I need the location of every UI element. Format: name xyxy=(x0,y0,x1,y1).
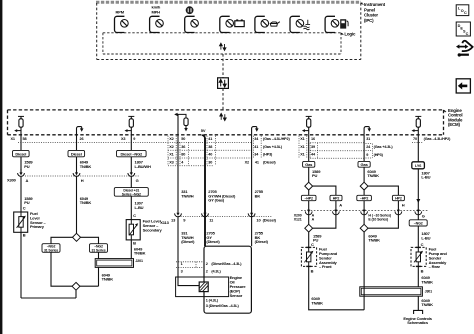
wire secondary B to splice pack xyxy=(130,240,132,259)
Diesel -NG2 tag xyxy=(117,150,147,156)
svg-text:(Gas +4.3L): (Gas +4.3L) xyxy=(374,145,394,149)
svg-text:(Diesel): (Diesel) xyxy=(181,239,195,244)
svg-text:X3: X3 xyxy=(169,160,173,164)
wire 1807 LY6 column xyxy=(417,135,419,162)
svg-text:Logic: Logic xyxy=(344,32,356,37)
serial data arrows above logic bottom xyxy=(220,43,226,50)
fuel level sensor secondary xyxy=(126,220,140,240)
-HP2 tag 2 xyxy=(357,195,372,200)
svg-text:31 Series: 31 Series xyxy=(91,248,105,252)
svg-text:41: 41 xyxy=(208,137,212,141)
svg-text:HP2: HP2 xyxy=(333,197,340,201)
X200 terminals col B xyxy=(361,211,368,214)
svg-text:Schematics: Schematics xyxy=(407,320,429,325)
HP2 wire jog to diamond xyxy=(313,201,336,229)
-HP2 tag xyxy=(301,195,316,200)
IPC name label xyxy=(361,3,364,5)
EOP inner element box xyxy=(176,277,229,297)
gauge speed km/h MPH xyxy=(150,4,164,32)
svg-text:HP2: HP2 xyxy=(395,197,402,201)
svg-text:X3: X3 xyxy=(121,137,125,141)
svg-text:(4.3L): (4.3L) xyxy=(211,270,221,274)
svg-text:TN/BK: TN/BK xyxy=(80,164,92,169)
svg-text:C: C xyxy=(311,242,314,247)
-NG2 31 Series tag left xyxy=(42,244,60,253)
ECM connector pin labels row 3 xyxy=(169,153,383,157)
DESC box xyxy=(456,22,470,36)
svg-text:Diesel –NG2: Diesel –NG2 xyxy=(121,151,144,156)
svg-text:–NG2: –NG2 xyxy=(414,222,423,226)
svg-text:(IPC): (IPC) xyxy=(364,18,374,23)
svg-text:Gas: Gas xyxy=(361,162,369,167)
svg-text:36: 36 xyxy=(181,145,185,149)
wire 1307 to secondary sensor xyxy=(130,196,132,219)
wire to Diesel +31 Series tag xyxy=(130,177,132,188)
svg-text:58: 58 xyxy=(23,137,27,141)
svg-text:TN/BK: TN/BK xyxy=(134,251,146,256)
X200 terminal col C xyxy=(415,211,422,214)
EOP internal wire xyxy=(178,277,199,286)
wire 6049 to splice diamond xyxy=(76,177,78,234)
svg-text:L-BU: L-BU xyxy=(135,205,144,210)
Logic label xyxy=(341,33,343,35)
svg-text:(Gas –4.3L/HP2): (Gas –4.3L/HP2) xyxy=(424,137,452,141)
right NG2 box into splice pack J201 xyxy=(98,252,100,258)
svg-text:A: A xyxy=(339,202,342,207)
splice diamond gas2 xyxy=(360,182,368,190)
svg-text:A: A xyxy=(26,178,29,183)
5V reference bus xyxy=(204,138,206,246)
svg-text:Primary: Primary xyxy=(30,224,45,229)
svg-text:PU: PU xyxy=(24,164,30,169)
svg-text:X1: X1 xyxy=(300,153,304,157)
serial data wire (dashed) upper xyxy=(222,54,224,78)
HP2 tag xyxy=(330,195,342,200)
svg-text:L-BU/WH: L-BU/WH xyxy=(135,164,151,169)
svg-text:Gas: Gas xyxy=(305,162,313,167)
gauge RPM xyxy=(115,10,129,33)
svg-text:Diesel: Diesel xyxy=(71,151,82,156)
svg-text:X2: X2 xyxy=(169,137,173,141)
svg-text:H: H xyxy=(402,202,405,207)
svg-text:MPH: MPH xyxy=(152,10,161,15)
svg-text:30: 30 xyxy=(208,160,212,164)
LOC box xyxy=(456,5,469,16)
svg-text:J301: J301 xyxy=(425,290,433,294)
EOP name xyxy=(230,275,247,298)
svg-text:(Diesel): (Diesel) xyxy=(263,160,276,164)
X113 terminal 5V bus xyxy=(202,213,209,216)
ECM pin driver P7 (16/39/44) xyxy=(302,116,312,134)
svg-text:G: G xyxy=(136,178,139,183)
ECM pin hook P2 (26) xyxy=(77,127,84,135)
Gas tag W7 xyxy=(303,161,315,167)
ECM pin hook P8 xyxy=(364,127,371,135)
engine oil pressure EOP sensor body xyxy=(204,246,251,313)
-HP2 wire through X200 xyxy=(308,201,310,225)
EOP transducer square xyxy=(199,282,208,292)
wire 331 into EOP xyxy=(177,217,179,277)
left NG2 box to ground diamond xyxy=(51,252,73,286)
X300 terminal W3 xyxy=(128,173,135,176)
svg-text:X1: X1 xyxy=(169,153,173,157)
svg-text:TN/BK: TN/BK xyxy=(80,200,92,205)
svg-text:41: 41 xyxy=(254,145,258,149)
svg-text:TN/BK: TN/BK xyxy=(102,277,114,282)
ECM pin driver P1 (X1 58) xyxy=(14,116,24,134)
wire 2755 BK xyxy=(251,135,253,246)
splice pack J301 xyxy=(360,287,423,296)
splice diamond D2 (ground) xyxy=(72,282,80,290)
instrument panel cluster IPC outer box xyxy=(96,2,361,59)
ECM connector pin labels row 4 xyxy=(169,160,276,164)
fuel level sensor primary xyxy=(14,212,28,232)
svg-text:Sensor: Sensor xyxy=(230,293,243,298)
X113 inline connector row xyxy=(176,215,272,217)
svg-text:X121: X121 xyxy=(294,218,302,222)
svg-text:3: 3 xyxy=(181,270,183,274)
Diesel +31 Series -NG2 tag xyxy=(114,188,148,197)
svg-text:(ECM): (ECM) xyxy=(448,122,461,127)
label 1589 PU xyxy=(24,160,33,169)
ECM internal supply P4 with fuse xyxy=(174,113,188,135)
svg-text:Series –NG2: Series –NG2 xyxy=(122,192,141,196)
svg-text:C: C xyxy=(464,11,467,15)
svg-text:– Rear: – Rear xyxy=(429,264,441,269)
svg-text:B: B xyxy=(311,268,314,273)
wire through splice to ground run xyxy=(363,287,365,310)
serial data connector box xyxy=(218,78,229,89)
svg-text:RPM: RPM xyxy=(116,10,125,15)
svg-text:L-BU: L-BU xyxy=(421,175,430,180)
gauge coolant temp xyxy=(290,16,310,32)
svg-text:80: 80 xyxy=(181,153,185,157)
svg-text:TN/BK: TN/BK xyxy=(421,279,433,284)
fuel pump and sender assembly rear xyxy=(411,247,426,266)
svg-text:16: 16 xyxy=(311,137,315,141)
EOP bottom pin labels xyxy=(206,299,240,309)
wire 6049 gas column xyxy=(363,135,365,162)
svg-text:B: B xyxy=(421,268,424,273)
connector variant dotted separators xyxy=(18,136,423,166)
Diesel tag W2 xyxy=(68,150,85,156)
svg-text:PU: PU xyxy=(313,238,319,243)
svg-text:TN/BK: TN/BK xyxy=(311,300,323,305)
off-page connector to engine controls xyxy=(414,310,423,314)
wire 6049 upper segment xyxy=(76,135,78,174)
svg-text:Secondary: Secondary xyxy=(143,227,163,232)
svg-text:39: 39 xyxy=(311,145,315,149)
svg-text:B: B xyxy=(133,240,136,245)
svg-text:L-BU: L-BU xyxy=(421,235,430,240)
wire 1807 upper segment xyxy=(130,135,132,174)
svg-text:H: H xyxy=(81,178,84,183)
svg-text:G: G xyxy=(422,213,425,218)
svg-text:31: 31 xyxy=(366,137,370,141)
svg-text:(Diesel): (Diesel) xyxy=(206,239,220,244)
svg-text:9: 9 xyxy=(133,137,135,141)
svg-text:26: 26 xyxy=(80,137,84,141)
wire 1589 PU upper segment xyxy=(20,135,22,174)
svg-text:(HP3): (HP3) xyxy=(374,153,384,157)
svg-text:1: 1 xyxy=(181,262,183,266)
6049 below J301 xyxy=(417,296,419,310)
Diesel tag W1 xyxy=(13,150,30,156)
svg-text:70: 70 xyxy=(413,137,417,141)
svg-text:GY (Gas): GY (Gas) xyxy=(208,198,225,203)
direction arrow on wire xyxy=(416,199,420,203)
EOP pin rows xyxy=(176,262,203,268)
X300 inline connector row xyxy=(25,175,140,177)
svg-text:(Diesel): (Diesel) xyxy=(263,217,277,222)
wire from primary B down xyxy=(20,232,22,298)
svg-text:2: 2 xyxy=(206,262,208,266)
svg-text:(Gas +4.3L): (Gas +4.3L) xyxy=(263,145,283,149)
svg-text:38: 38 xyxy=(208,145,212,149)
svg-text:J201: J201 xyxy=(135,259,143,263)
branch to -NG2 31 Series left xyxy=(51,237,73,243)
svg-text:TN/BK: TN/BK xyxy=(368,238,380,243)
X113 terminal 2755 xyxy=(248,213,255,216)
wire 331 TN/WH xyxy=(177,135,179,214)
wire 1589 PU to sensor xyxy=(20,177,22,212)
-NG2 tag right xyxy=(409,220,427,226)
svg-text:–HP2: –HP2 xyxy=(360,197,369,201)
Gas tag W8 xyxy=(358,161,370,167)
serial data wire (dashed) lower xyxy=(222,88,224,110)
svg-text:40: 40 xyxy=(208,153,212,157)
gauge battery xyxy=(220,16,244,32)
svg-text:1 (4.3L): 1 (4.3L) xyxy=(206,299,219,303)
svg-text:(Gas –4.3L/HP2): (Gas –4.3L/HP2) xyxy=(263,137,291,141)
svg-text:9: 9 xyxy=(366,153,368,157)
wire 1589 PU gas column xyxy=(308,135,310,162)
front assembly B to ground run xyxy=(309,266,364,309)
gauge fuel xyxy=(325,16,348,32)
svg-text:X113: X113 xyxy=(160,220,169,225)
svg-text:PU: PU xyxy=(312,173,318,178)
svg-text:(HP3): (HP3) xyxy=(263,153,273,157)
svg-text:LY6: LY6 xyxy=(415,164,421,168)
branch to -NG2 31 Series right xyxy=(81,237,99,243)
svg-text:(Diesel): (Diesel) xyxy=(255,239,269,244)
X300 terminal W2 xyxy=(73,173,80,176)
splice diamond gas1 lower xyxy=(305,224,313,232)
svg-text:X2: X2 xyxy=(169,145,173,149)
svg-text:Diesel: Diesel xyxy=(15,151,26,156)
svg-text:BK: BK xyxy=(255,193,261,198)
svg-text:2: 2 xyxy=(206,270,208,274)
gauge oil xyxy=(255,16,280,32)
splice diamond gas2 lower xyxy=(360,224,368,232)
splice diamond gas1 xyxy=(305,182,313,190)
svg-text:C: C xyxy=(133,213,136,218)
svg-text:– Front: – Front xyxy=(319,264,332,269)
svg-text:TN/BK: TN/BK xyxy=(367,173,379,178)
logic box (inner dashed) xyxy=(103,33,341,54)
serial data arrows inside ECM xyxy=(220,113,226,120)
svg-text:X300: X300 xyxy=(7,177,17,182)
ECM pin driver P9 (70) xyxy=(412,116,422,134)
gauge coolant temp warning icon xyxy=(185,6,199,32)
X200 X121 connector row (right) xyxy=(301,210,428,212)
svg-text:C: C xyxy=(466,32,469,36)
svg-text:5V: 5V xyxy=(201,128,206,133)
page edge bar xyxy=(0,0,2,334)
branch to HP2 right xyxy=(313,186,336,195)
engine control module ECM box xyxy=(8,110,444,135)
svg-text:X1: X1 xyxy=(300,145,304,149)
splice diamond D1 xyxy=(73,233,81,241)
jump arrows icon xyxy=(456,41,473,57)
splice pack J201 xyxy=(95,259,133,268)
LY6 tag xyxy=(412,162,425,169)
labels below X113 xyxy=(181,231,268,244)
ECM connector pin labels row 2 xyxy=(169,145,393,149)
svg-text:TN/WH: TN/WH xyxy=(181,193,194,198)
svg-text:X1: X1 xyxy=(300,137,304,141)
svg-text:C: C xyxy=(23,206,26,211)
svg-text:E (10 Series): E (10 Series) xyxy=(368,218,389,222)
svg-text:TN/BK: TN/BK xyxy=(421,302,433,307)
svg-text:PU: PU xyxy=(24,200,30,205)
back arrow box xyxy=(456,79,470,93)
-NG2 31 Series tag right xyxy=(90,244,108,253)
svg-text:(Diesel/Gas –4.3L): (Diesel/Gas –4.3L) xyxy=(211,262,242,266)
fuel pump and sender assembly front xyxy=(301,247,316,266)
X300 terminal W1 xyxy=(18,173,25,176)
ECM connector pin labels row 1 xyxy=(11,137,452,141)
ECM pin driver P3 (X3 9) xyxy=(125,116,135,134)
svg-text:C: C xyxy=(421,242,424,247)
svg-text:X2: X2 xyxy=(245,160,249,164)
svg-text:–HP2: –HP2 xyxy=(304,197,313,201)
svg-text:41: 41 xyxy=(255,160,259,164)
bottom ground run xyxy=(21,297,76,299)
6049 below splice pack xyxy=(98,267,100,286)
ECM pin hook P6 (X2 41) xyxy=(252,127,259,135)
X113 terminal W331 xyxy=(175,213,182,216)
ECM name label xyxy=(444,110,447,112)
HP2 tag 2 xyxy=(392,195,404,200)
svg-text:B: B xyxy=(23,233,26,238)
X200 terminals col A xyxy=(305,211,312,214)
svg-text:50: 50 xyxy=(181,137,185,141)
svg-text:3 (Diesel/Gas –4.3L): 3 (Diesel/Gas –4.3L) xyxy=(206,304,240,308)
svg-text:31 Series: 31 Series xyxy=(44,248,58,252)
svg-text:X1: X1 xyxy=(11,137,15,141)
